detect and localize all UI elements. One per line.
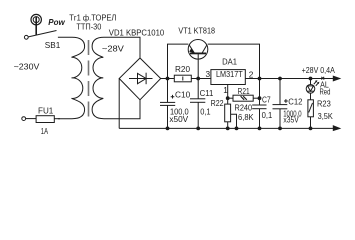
node pin1/R21 (226, 96, 230, 100)
node LED top (309, 77, 313, 81)
wire secondary top to bridge (104, 37, 140, 58)
svg-text:R23: R23 (317, 98, 331, 108)
transistor VT1 (188, 40, 208, 60)
svg-text:FU1: FU1 (38, 106, 54, 116)
svg-text:~28V: ~28V (102, 44, 125, 54)
transformer T1 secondary winding (92, 37, 104, 118)
svg-text:0,1: 0,1 (262, 110, 273, 120)
capacitor C12 (273, 79, 288, 129)
bridge rectifier VD1 (119, 58, 161, 100)
svg-text:C10: C10 (175, 90, 191, 100)
svg-text:~230V: ~230V (14, 62, 40, 72)
node C12 bottom (278, 126, 282, 130)
node base junction (196, 77, 200, 81)
bottom rail arrow (333, 126, 340, 131)
node collector/output (258, 77, 262, 81)
transformer core (88, 40, 90, 118)
resistor R23 (308, 100, 314, 129)
svg-text:6,8K: 6,8K (238, 112, 254, 122)
svg-text:C11: C11 (200, 88, 214, 98)
power button icon (31, 14, 41, 35)
node C10 bottom (166, 126, 170, 130)
transformer T1 primary winding (58, 37, 85, 118)
output rail arrow (333, 76, 340, 81)
node R22 tap bottom (235, 126, 239, 130)
node C11 bottom (196, 126, 200, 130)
svg-text:SB1: SB1 (45, 40, 61, 50)
switch SB1 lever (28, 31, 56, 37)
svg-text:VD1 KBPC1010: VD1 KBPC1010 (109, 27, 165, 37)
plus sign C10 (171, 95, 175, 99)
svg-text:3: 3 (206, 69, 211, 79)
svg-text:R20: R20 (175, 64, 190, 74)
svg-text:C12: C12 (288, 97, 303, 107)
svg-text:ТТП-30: ТТП-30 (76, 21, 101, 31)
svg-text:DA1: DA1 (222, 56, 237, 66)
svg-text:R21: R21 (238, 86, 250, 96)
trimmer R21 (228, 95, 260, 101)
wire R20 to LM317 pin3 (191, 78, 211, 80)
resistor R20 (174, 75, 191, 82)
svg-text:R240: R240 (235, 102, 253, 112)
fuse FU1 terminal (22, 117, 26, 121)
resistor R22 (225, 104, 231, 122)
node C12 top (278, 77, 282, 81)
wire bridge plus to R20 (161, 78, 175, 80)
svg-text:x35V: x35V (283, 115, 299, 125)
svg-text:2: 2 (249, 69, 254, 79)
capacitor C10 (160, 79, 175, 129)
svg-text:C7: C7 (262, 95, 271, 105)
wire emitter to rail (168, 44, 189, 78)
node C10 top (166, 77, 170, 81)
capacitor C7 (252, 79, 266, 129)
wire base down (197, 59, 199, 78)
node R23 bottom (309, 126, 313, 130)
capacitor C11 (190, 79, 205, 129)
wire pin1 down (227, 85, 229, 105)
node C7 bottom (258, 126, 262, 130)
svg-text:+28V 0,4A: +28V 0,4A (302, 65, 336, 75)
LED arrows (314, 80, 320, 86)
connector X mark (321, 77, 324, 80)
svg-text:Red: Red (320, 87, 331, 97)
R22 tap (231, 114, 237, 128)
regulator DA1 LM317T (211, 70, 245, 85)
svg-text:VT1 KT818: VT1 KT818 (178, 25, 215, 35)
node R22 bottom (226, 126, 230, 130)
wire fuse to transformer (54, 118, 60, 120)
svg-text:3,5K: 3,5K (318, 111, 334, 121)
LED HL1 (306, 79, 315, 100)
svg-text:Pow: Pow (48, 17, 65, 27)
svg-text:R22: R22 (211, 98, 224, 108)
svg-text:x50V: x50V (169, 114, 188, 124)
svg-text:1A: 1A (41, 126, 49, 136)
svg-text:0,1: 0,1 (200, 107, 211, 117)
bottom rail (119, 127, 334, 129)
output rail (245, 78, 334, 80)
switch SB1 contact (24, 35, 28, 39)
wire secondary bottom to bridge (104, 100, 140, 119)
node R21 right (258, 96, 262, 100)
plus sign C12 (284, 99, 288, 103)
svg-text:LM317T: LM317T (216, 69, 243, 79)
wire collector to output (208, 44, 260, 78)
fuse FU1 (26, 116, 55, 123)
wire bridge minus down (118, 79, 120, 129)
